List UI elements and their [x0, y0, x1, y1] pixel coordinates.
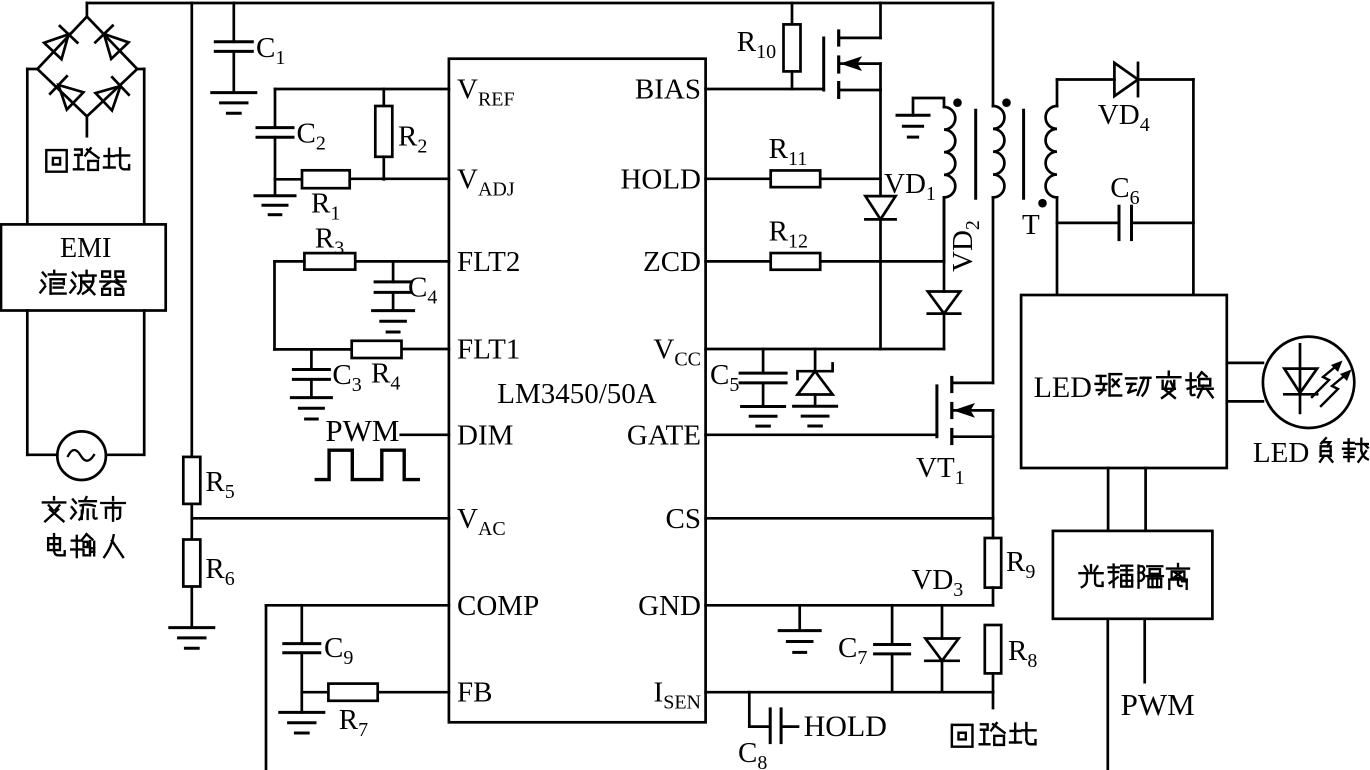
- AC input label: [43, 497, 65, 521]
- resistor R10: [784, 24, 801, 71]
- svg-text:FLT1: FLT1: [457, 334, 520, 366]
- wire LED box to opto right: [1144, 468, 1147, 531]
- wire GATE: [706, 433, 937, 436]
- wire VT1 drain to transformer: [992, 197, 995, 383]
- wire R5 column from rail: [190, 3, 193, 457]
- wire C9 bottom: [300, 653, 303, 713]
- ground C3: [291, 396, 331, 399]
- resistor R2 top stub: [382, 89, 385, 106]
- wire secondary bottom: [1056, 197, 1059, 295]
- wire COMP left vertical to bottom: [265, 605, 268, 770]
- ground C1: [212, 91, 256, 94]
- wire LED load top lead: [1227, 362, 1263, 365]
- capacitor C4: [375, 280, 411, 283]
- ground GND pin: [779, 629, 820, 632]
- node dot primary: [1002, 98, 1011, 107]
- wire secondary top horizontal: [1057, 78, 1114, 81]
- ground DZ: [794, 405, 837, 408]
- wire VAC: [192, 517, 449, 520]
- transistor Q1 channel: [837, 31, 840, 45]
- wire right column lower: [143, 311, 146, 455]
- svg-text:HOLD: HOLD: [804, 710, 887, 743]
- wire R9 bottom stub: [992, 588, 995, 606]
- LED load circle: [1263, 337, 1354, 428]
- transformer T aux winding: [944, 107, 955, 197]
- transistor VT1 gate bar: [935, 386, 938, 437]
- svg-text:LED: LED: [1034, 371, 1092, 404]
- wire C2 top stub: [274, 89, 277, 128]
- resistor R3: [304, 253, 355, 270]
- capacitor C8: [769, 709, 772, 743]
- wire bridge top stub: [86, 3, 89, 17]
- wire R9 top stub: [992, 518, 995, 538]
- wire VADJ: [350, 177, 449, 180]
- wire AC right lead: [106, 453, 144, 456]
- transformer T core right: [1022, 110, 1025, 198]
- resistor R12: [771, 253, 821, 270]
- svg-text:COMP: COMP: [457, 590, 539, 622]
- wire C7 top stub: [891, 605, 894, 644]
- capacitor C2: [257, 126, 293, 129]
- capacitor C9: [284, 642, 320, 645]
- wire right column down: [1192, 80, 1195, 296]
- wire GND: [706, 604, 993, 607]
- svg-text:CS: CS: [666, 503, 701, 535]
- wire secondary top: [1056, 80, 1059, 107]
- zener diode DZ top stub: [814, 349, 817, 371]
- diode VD2: [928, 292, 960, 314]
- AC source: [57, 431, 106, 480]
- wire DIM: [401, 433, 449, 436]
- PWM square wave: [316, 450, 418, 479]
- wire CS: [706, 517, 993, 520]
- node loop-ground label bottom: [952, 725, 973, 747]
- transistor VT1 body arrow: [954, 409, 993, 412]
- wire C3 stub: [310, 349, 313, 369]
- diode VD3: [925, 639, 958, 661]
- ground aux winding: [897, 114, 929, 117]
- transistor VT1 channel: [950, 378, 953, 392]
- svg-text:PWM: PWM: [1121, 687, 1195, 722]
- transistor Q1 gate bar: [822, 38, 825, 90]
- wire bridge left to loop box: [27, 68, 37, 71]
- wire Q1 source down: [879, 90, 882, 196]
- wire VD2 bottom: [943, 314, 946, 349]
- wire FLT2: [355, 260, 449, 263]
- transformer T secondary winding: [1046, 106, 1057, 197]
- wire C8 stub down: [748, 692, 751, 726]
- wire VCC: [706, 348, 944, 351]
- wire R10 top stub: [791, 3, 794, 24]
- wire VD3 bottom stub: [941, 661, 944, 692]
- transformer T core left: [974, 110, 977, 198]
- wire C6 left lead: [1057, 222, 1119, 225]
- LED emission arrows: [1312, 363, 1340, 397]
- wire VD3 top stub: [941, 605, 944, 638]
- wire LED box to opto left: [1107, 468, 1110, 531]
- svg-text:LED: LED: [1253, 437, 1309, 469]
- svg-text:PWM: PWM: [325, 413, 399, 448]
- wire C4 stub: [392, 261, 395, 282]
- wire FLT1: [402, 348, 449, 351]
- wire right column upper: [143, 69, 146, 224]
- wire VREF: [275, 88, 449, 91]
- diode VD1: [865, 196, 895, 219]
- transistor VT1 drain stub: [952, 382, 993, 385]
- wire ZCD junction down: [879, 261, 882, 349]
- wire aux winding bottom: [943, 197, 946, 261]
- wire bridge bottom stub: [86, 116, 89, 136]
- wire C5 stub: [762, 349, 765, 373]
- resistor R4: [352, 341, 402, 358]
- wire R6 to ground: [190, 587, 193, 628]
- resistor R7: [328, 684, 377, 701]
- resistor R2: [375, 106, 392, 157]
- bridge diode top-left: [44, 26, 77, 59]
- LED drive converter box: [1021, 295, 1227, 468]
- wire bridge right to loop box: [137, 68, 144, 71]
- ground C9: [280, 711, 324, 714]
- op-amp U1 LM3450/50A IC body: [449, 59, 706, 723]
- wire LED load bottom lead: [1227, 400, 1263, 403]
- svg-text:EMI: EMI: [60, 233, 111, 264]
- node loop-ground label top-left: [46, 150, 66, 172]
- wire left column lower: [26, 311, 29, 455]
- node dot aux: [953, 98, 962, 107]
- resistor R9: [985, 538, 1001, 588]
- wire R2 bottom stub: [382, 157, 385, 180]
- bridge rectifier diamond wires: [37, 17, 137, 117]
- transistor Q1 drain stub: [839, 37, 881, 40]
- wire GND ground stub: [798, 605, 801, 630]
- capacitor C5: [740, 372, 786, 375]
- wire top rail: [87, 2, 993, 5]
- svg-text:FLT2: FLT2: [457, 246, 520, 278]
- transformer T aux winding ground hook: [913, 98, 944, 115]
- capacitor C8 left lead: [749, 725, 768, 728]
- resistor R5: [183, 457, 200, 504]
- bridge diode bottom-right: [96, 77, 129, 110]
- wire opto left down to bottom: [1106, 619, 1109, 770]
- wire VD2 top: [943, 197, 946, 291]
- ground C5: [742, 405, 785, 408]
- wire ZCD: [706, 260, 771, 263]
- wire C4 to ground: [392, 292, 395, 310]
- wire C7 bottom stub: [891, 654, 894, 692]
- wire primary top: [992, 3, 995, 106]
- wire C1 top: [232, 3, 235, 42]
- ground R6: [170, 626, 214, 629]
- transformer T primary winding: [993, 106, 1004, 197]
- wire opto PWM stub: [1143, 619, 1146, 682]
- wire C1 bottom: [232, 51, 235, 92]
- capacitor C8 right lead: [783, 725, 798, 728]
- wire C2 bottom stub: [274, 137, 277, 179]
- wire VD1 to ZCD junction: [879, 219, 882, 261]
- wire C6 right lead: [1132, 222, 1194, 225]
- resistor R6: [183, 540, 200, 587]
- transistor Q1 source stub: [839, 89, 881, 92]
- transistor VT1 source stub: [952, 435, 993, 438]
- wire VT1 source down to CS: [992, 437, 995, 519]
- svg-text:GND: GND: [638, 590, 701, 622]
- svg-text:BIAS: BIAS: [635, 74, 701, 106]
- wire FB: [378, 691, 449, 694]
- wire left column upper: [26, 69, 29, 224]
- zener diode DZ: [798, 364, 833, 380]
- wire AC left lead: [27, 453, 57, 456]
- transistor Q1 body arrow: [841, 62, 881, 65]
- wire Q1 drain to rail: [879, 3, 882, 38]
- wire C3 to ground: [310, 379, 313, 397]
- resistor R1: [302, 170, 350, 188]
- EMI filter box: [1, 224, 166, 310]
- svg-text:LM3450/50A: LM3450/50A: [497, 378, 657, 410]
- wire C5 to ground: [762, 383, 765, 407]
- svg-text:HOLD: HOLD: [620, 163, 701, 195]
- diode VD4: [1114, 63, 1138, 96]
- wire COMP: [266, 604, 449, 607]
- wire C9 stub: [300, 605, 303, 643]
- wire VD4 to right corner: [1138, 78, 1193, 81]
- capacitor C7: [875, 643, 910, 646]
- svg-text:GATE: GATE: [627, 419, 701, 451]
- wire R5-R6 junction: [190, 504, 193, 540]
- resistor R8: [985, 625, 1001, 673]
- optocoupler isolation box: [1053, 531, 1213, 619]
- wire FLT2-FLT1 left vertical: [273, 261, 276, 349]
- wire loop-ground stub: [992, 692, 995, 708]
- bridge diode bottom-left: [50, 76, 83, 109]
- ground C4: [373, 309, 414, 312]
- wire BIAS: [706, 88, 824, 91]
- wire R8 bottom stub: [992, 673, 995, 692]
- resistor R11: [771, 170, 821, 187]
- capacitor C1: [215, 40, 252, 43]
- wire C2-R1 to ground: [274, 179, 277, 195]
- capacitor C3: [293, 368, 329, 371]
- bridge diode top-right: [95, 26, 128, 59]
- node dot secondary: [1038, 199, 1047, 208]
- ground C2: [255, 194, 295, 197]
- svg-text:FB: FB: [457, 677, 492, 709]
- wire R10 bottom stub: [791, 71, 794, 89]
- svg-text:ZCD: ZCD: [643, 246, 701, 278]
- svg-text:T: T: [1022, 209, 1040, 241]
- wire R3 left lead: [275, 260, 305, 263]
- wire HOLD: [706, 177, 771, 180]
- capacitor C6: [1118, 206, 1121, 239]
- svg-text:DIM: DIM: [457, 419, 513, 451]
- wire ISEN: [706, 691, 993, 694]
- LED symbol: [1299, 344, 1302, 413]
